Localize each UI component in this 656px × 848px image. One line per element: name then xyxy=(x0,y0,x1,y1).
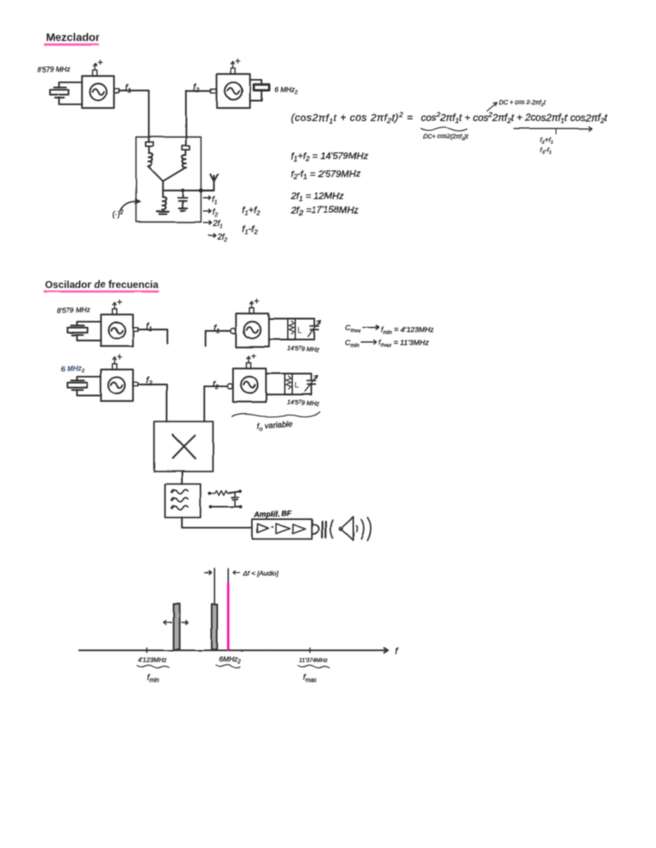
label 6MHz xyxy=(216,655,241,668)
svg-text:14'579 MHz: 14'579 MHz xyxy=(287,399,320,408)
svg-text:Oscilador de frecuencia: Oscilador de frecuencia xyxy=(45,280,159,291)
power stub U1 xyxy=(93,61,102,76)
tick fmax xyxy=(309,648,311,653)
arrow to line xyxy=(205,571,212,574)
filter F1 xyxy=(165,484,201,518)
underbrace term1 xyxy=(421,128,468,141)
crystal X4 xyxy=(68,381,88,391)
svg-text:f2+f1: f2+f1 xyxy=(540,137,553,146)
svg-text:f2-f1: f2-f1 xyxy=(540,147,551,156)
arrow under term3 xyxy=(514,126,592,155)
power stub U5 xyxy=(112,355,121,370)
crystal X1 xyxy=(50,88,69,98)
svg-text:2f1: 2f1 xyxy=(212,219,223,230)
oscillator U4 xyxy=(236,314,269,348)
frequency axis xyxy=(79,648,388,653)
oscillator U2 xyxy=(217,74,250,108)
svg-text:Amplif. BF: Amplif. BF xyxy=(253,509,292,519)
inductor L2 xyxy=(182,150,186,168)
wire f2 into U6 and mixer xyxy=(204,386,226,421)
wire f1 into U4 xyxy=(206,331,230,346)
inductor L1 xyxy=(148,146,152,166)
svg-text:6 MHz2: 6 MHz2 xyxy=(275,87,298,96)
tick fmin xyxy=(146,648,148,653)
annotation df audio xyxy=(233,571,279,578)
antenna A1 xyxy=(210,174,217,181)
node stem xyxy=(162,181,164,191)
fuse right xyxy=(182,137,190,150)
power stub U4 xyxy=(249,299,258,314)
amplifier chain A1 xyxy=(252,519,312,539)
wire to antenna xyxy=(201,181,214,190)
mixer M1 xyxy=(154,422,213,472)
arrow left bar1 xyxy=(164,621,172,625)
svg-text:f1: f1 xyxy=(146,321,153,333)
arrow annotation term2 xyxy=(487,100,546,112)
svg-text:6MHz2: 6MHz2 xyxy=(219,655,241,666)
wire filter to amp xyxy=(182,518,253,528)
svg-text:2f1 = 12MHz: 2f1 = 12MHz xyxy=(290,191,344,203)
svg-text:4'123MHz: 4'123MHz xyxy=(138,657,167,664)
wire mixer to filter xyxy=(181,472,183,485)
crystal X2 xyxy=(250,80,269,101)
arrow f1 out xyxy=(204,195,218,206)
svg-text:DC+ cos2(2πf2)t: DC+ cos2(2πf2)t xyxy=(423,134,468,141)
ground G2 xyxy=(179,208,187,210)
wire L1 to node xyxy=(148,166,163,181)
svg-text:L: L xyxy=(298,326,303,335)
svg-text:fmin: fmin xyxy=(147,672,160,684)
speaker coupling xyxy=(312,520,332,538)
svg-text:f1: f1 xyxy=(125,83,132,95)
oscillator U5 xyxy=(101,370,133,402)
power stub U2 xyxy=(231,59,240,74)
svg-text:f2: f2 xyxy=(213,208,218,219)
wire X4 to U5 xyxy=(77,377,101,396)
input nub U6 xyxy=(227,384,232,389)
spectral line magenta xyxy=(227,569,229,650)
equation main xyxy=(291,112,608,125)
svg-text:14'579 MHz: 14'579 MHz xyxy=(287,345,320,354)
wire L2 to node xyxy=(164,168,185,181)
label Cmin fmax xyxy=(345,338,429,349)
input nub U2 xyxy=(211,89,217,93)
sound waves xyxy=(361,518,371,541)
fuse left xyxy=(146,137,154,146)
wire U5 f2 to mixer xyxy=(138,385,167,422)
RC network xyxy=(208,490,242,509)
svg-text:fo variable: fo variable xyxy=(257,419,294,433)
wavy brace fo variable xyxy=(232,412,320,417)
svg-text:cos22πf1t + cos22πf2t + 2cos2π: cos22πf1t + cos22πf2t + 2cos2πf1t cos2πf… xyxy=(421,112,608,125)
wire f2 into U2 xyxy=(186,91,211,137)
arrow 2f2 out xyxy=(209,233,228,244)
variable capacitor CV2 xyxy=(305,374,318,395)
label fmax value xyxy=(298,658,330,684)
svg-text:f1: f1 xyxy=(213,195,218,206)
power stub U3 xyxy=(112,300,121,315)
arrow to mixer xyxy=(120,199,140,211)
speaker SP1 xyxy=(339,517,357,540)
svg-text:(·)2: (·)2 xyxy=(112,210,124,219)
svg-text:f1+f2 = 14'579MHz: f1+f2 = 14'579MHz xyxy=(291,151,368,163)
label 4'123MHz xyxy=(137,657,169,684)
svg-text:DC + cos 2·2πf2t: DC + cos 2·2πf2t xyxy=(499,100,546,107)
oscillator U1 xyxy=(82,76,114,108)
svg-text:Mezclador: Mezclador xyxy=(46,32,101,44)
inductor L4 xyxy=(288,319,303,340)
inductor L3 xyxy=(162,191,166,210)
svg-text:6 MHz2: 6 MHz2 xyxy=(61,363,85,375)
junction dot A xyxy=(181,189,185,193)
svg-text:f1+f2: f1+f2 xyxy=(242,205,260,217)
svg-text:Cmin: Cmin xyxy=(345,338,359,349)
output nub U1 xyxy=(114,89,119,93)
output nub U3 xyxy=(133,328,138,332)
svg-text:8'579 MHz: 8'579 MHz xyxy=(37,66,71,74)
title Mezclador xyxy=(45,32,101,45)
svg-text:f2: f2 xyxy=(193,82,200,94)
inductor L5 xyxy=(285,374,300,395)
svg-text:L: L xyxy=(295,381,300,390)
output nub U5 xyxy=(133,383,138,387)
svg-text:8'579 MHz: 8'579 MHz xyxy=(57,307,91,315)
variable capacitor CV1 xyxy=(308,319,321,340)
svg-text:Cmax: Cmax xyxy=(345,323,361,334)
line above bar 2 xyxy=(214,569,216,604)
svg-text:f1: f1 xyxy=(214,323,221,335)
wire X3 to U3 xyxy=(77,322,101,341)
tank wires U4 xyxy=(269,319,314,340)
svg-text:2f2: 2f2 xyxy=(217,233,228,244)
power stub U6 xyxy=(246,354,255,369)
svg-text:f2: f2 xyxy=(146,375,153,387)
svg-text:fmin = 4'123MHz: fmin = 4'123MHz xyxy=(381,325,434,336)
spectral bar 2 xyxy=(212,604,218,650)
bus wire xyxy=(163,190,214,192)
arrow right bar1 xyxy=(182,621,189,624)
arrow 2f1 out xyxy=(204,219,223,230)
crystal X3 xyxy=(68,326,88,336)
svg-text:f2: f2 xyxy=(213,379,220,391)
oscillator U3 xyxy=(101,315,133,347)
wire X1 to U1 xyxy=(59,82,82,104)
capacitor C1 xyxy=(178,191,187,208)
oscillator U6 xyxy=(233,369,266,403)
tank wires U6 xyxy=(266,374,311,395)
svg-text:f2-f1 = 2'579MHz: f2-f1 = 2'579MHz xyxy=(291,169,361,181)
title Oscilador de frecuencia xyxy=(44,280,159,292)
svg-text:Δf < [Audio]: Δf < [Audio] xyxy=(242,571,279,578)
ground G1 xyxy=(157,210,168,215)
svg-text:2f2 =17'158MHz: 2f2 =17'158MHz xyxy=(290,205,359,217)
svg-text:fmax: fmax xyxy=(303,672,318,684)
junction dot B xyxy=(199,188,203,192)
svg-text:(cos2πf1t + cos 2πf2t)2 =: (cos2πf1t + cos 2πf2t)2 = xyxy=(291,112,413,125)
svg-text:11'374MHz: 11'374MHz xyxy=(299,658,328,664)
wire U1 output f1 xyxy=(119,91,149,138)
spectral bar 1 xyxy=(174,604,180,650)
mixer block box xyxy=(136,137,201,222)
svg-text:fmax = 11'3MHz: fmax = 11'3MHz xyxy=(379,338,429,349)
svg-text:f1-f2: f1-f2 xyxy=(242,224,258,236)
svg-text:f: f xyxy=(395,646,399,657)
input nub U4 xyxy=(230,328,235,333)
wire U3 f1 xyxy=(138,330,167,344)
arrow f2 out xyxy=(204,208,218,219)
label Cmax fmin xyxy=(345,323,434,336)
